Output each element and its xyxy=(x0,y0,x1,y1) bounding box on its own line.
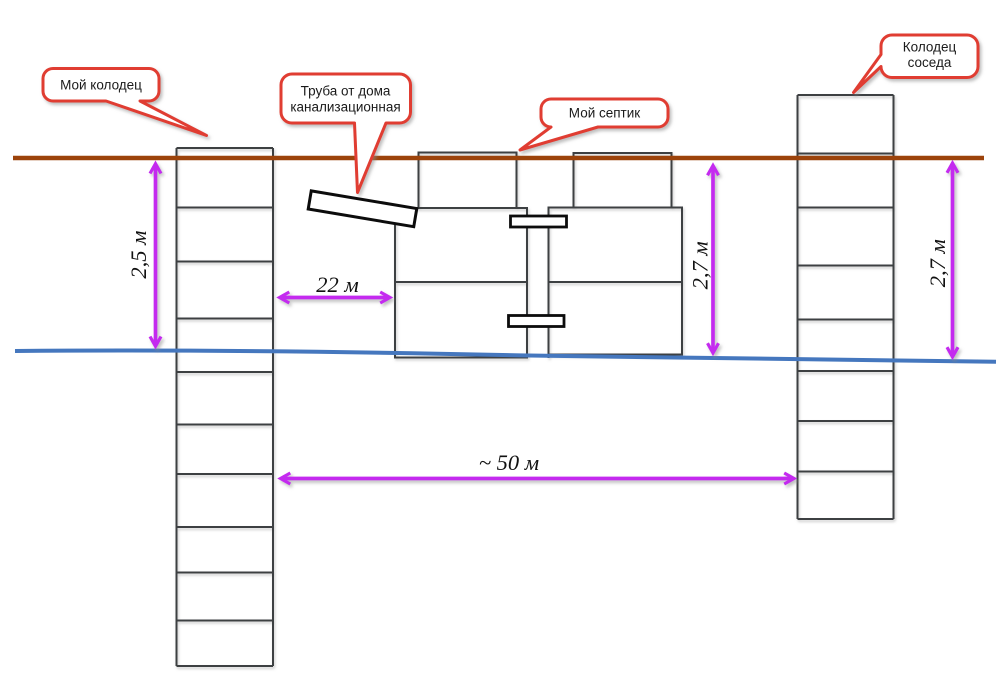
svg-text:Труба от дома: Труба от дома xyxy=(301,84,391,99)
svg-text:2,5 м: 2,5 м xyxy=(126,231,151,279)
svg-text:Мой септик: Мой септик xyxy=(569,106,640,121)
svg-text:Мой колодец: Мой колодец xyxy=(60,78,142,93)
svg-text:22 м: 22 м xyxy=(316,272,358,297)
svg-text:~ 50 м: ~ 50 м xyxy=(479,450,539,475)
svg-text:2,7 м: 2,7 м xyxy=(925,239,950,287)
svg-text:соседа: соседа xyxy=(908,55,952,70)
svg-text:канализационная: канализационная xyxy=(290,100,400,115)
svg-text:2,7 м: 2,7 м xyxy=(688,241,713,289)
svg-text:Колодец: Колодец xyxy=(903,40,957,55)
